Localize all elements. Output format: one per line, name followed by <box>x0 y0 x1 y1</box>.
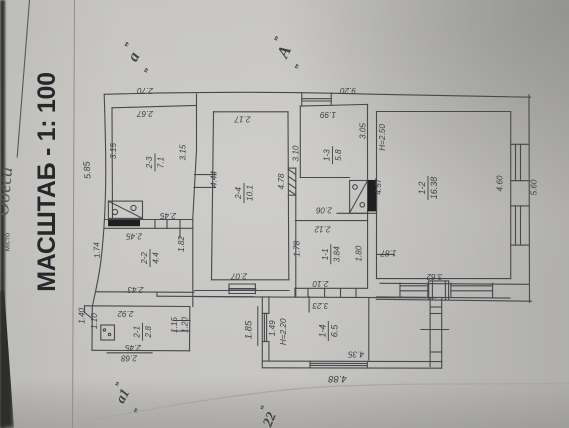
dark photo edge left <box>0 0 5 428</box>
svg-text:2-4: 2-4 <box>234 187 243 200</box>
dimension line below annex <box>107 352 152 354</box>
wall: top outer <box>104 92 530 97</box>
svg-text:1.80: 1.80 <box>354 245 363 261</box>
svg-text:1.99: 1.99 <box>320 110 336 119</box>
svg-text:1-1: 1-1 <box>321 248 330 260</box>
threshold below 2-4 <box>228 284 230 294</box>
room label 1-3/5.8 <box>323 146 344 164</box>
svg-text:2.67: 2.67 <box>137 109 154 118</box>
room label 1-4/6.5 <box>317 321 339 341</box>
svg-text:„: „ <box>267 32 280 42</box>
porch divider wall <box>368 298 370 360</box>
wall: inner left of room 2-3 <box>111 108 114 220</box>
flue: solid black wedge <box>109 220 140 226</box>
svg-text:4.88: 4.88 <box>328 373 347 384</box>
bottom wall of 1-2 windows <box>399 283 401 297</box>
svg-text:1-2: 1-2 <box>417 181 427 194</box>
svg-text:1.20: 1.20 <box>181 317 190 333</box>
svg-text:5.8: 5.8 <box>334 149 343 161</box>
svg-text:2.70: 2.70 <box>137 86 154 95</box>
svg-text:1.82: 1.82 <box>177 236 186 252</box>
dimension extension line for 1.85 <box>257 306 259 346</box>
svg-text:4.78: 4.78 <box>277 173 286 189</box>
annex room 2-1 top wall <box>85 305 191 308</box>
svg-text:а1: а1 <box>114 387 134 406</box>
annex room 2-1 left wall <box>91 306 93 350</box>
svg-text:2.10: 2.10 <box>312 279 329 288</box>
svg-text:4.57: 4.57 <box>374 178 383 194</box>
small box with dots in 2-1 <box>101 325 115 340</box>
svg-text:„: „ <box>254 402 266 411</box>
dimension drop tick for 3.23 <box>308 297 310 312</box>
svg-text:4.44: 4.44 <box>210 171 219 187</box>
svg-text:2.43: 2.43 <box>127 285 144 294</box>
bottom band of 1-1 with ticks <box>294 288 296 296</box>
wall: room 2-2 bottom inner <box>96 291 194 294</box>
svg-text:2.17: 2.17 <box>234 115 251 124</box>
margin rule line <box>73 0 75 428</box>
svg-text:4.60: 4.60 <box>496 175 505 191</box>
svg-text:2-1: 2-1 <box>133 326 142 339</box>
svg-text:4.4: 4.4 <box>152 252 161 264</box>
wall: left block right (between blocks) <box>193 94 197 307</box>
svg-text:9.20: 9.20 <box>340 86 356 95</box>
stove in room 2-3: box with diagonal and circles <box>108 201 142 218</box>
city name rule line <box>17 0 29 157</box>
wall: room 2-2 bottom outer <box>157 295 263 298</box>
svg-text:Одеса: Одеса <box>0 166 17 217</box>
svg-text:5.60: 5.60 <box>529 179 538 195</box>
door jamb ticks in mid wall <box>195 174 217 176</box>
wall: corridor line below 2-2 <box>195 290 290 292</box>
svg-text:3.23: 3.23 <box>312 301 328 310</box>
wall: left outer <box>92 94 105 306</box>
svg-text:4.35: 4.35 <box>348 349 364 358</box>
svg-text:2.68: 2.68 <box>121 354 138 363</box>
svg-text:10.1: 10.1 <box>246 185 255 201</box>
svg-text:H=2.50: H=2.50 <box>378 124 387 151</box>
svg-text:H=2.20: H=2.20 <box>279 318 288 345</box>
room label 2-2/4.4 <box>140 249 161 267</box>
svg-text:1.15: 1.15 <box>170 317 179 333</box>
svg-text:3.62: 3.62 <box>426 272 442 281</box>
porch 1-4 left wall with window <box>261 297 263 367</box>
svg-text:1.85: 1.85 <box>244 320 255 339</box>
wall: second line of mid wall band <box>212 112 214 280</box>
svg-text:„: „ <box>128 404 140 414</box>
room 1-2 walls <box>376 112 378 279</box>
svg-text:1.40: 1.40 <box>78 307 87 323</box>
windows in right wall of 1-2 <box>511 143 529 145</box>
svg-text:3.84: 3.84 <box>332 246 341 262</box>
room label 2-1/2.8 <box>133 323 154 341</box>
room 2-4 walls <box>214 111 289 113</box>
svg-text:2.06: 2.06 <box>316 206 333 215</box>
wall: right outer <box>528 95 531 302</box>
svg-text:2.45: 2.45 <box>126 232 143 241</box>
svg-text:16.38: 16.38 <box>429 177 439 200</box>
annex chamfer <box>84 306 86 313</box>
wall: inner top of left block <box>112 106 196 108</box>
annex room 2-1 right wall <box>189 307 191 351</box>
svg-text:2.07: 2.07 <box>231 272 248 281</box>
svg-text:1.87: 1.87 <box>380 249 396 258</box>
svg-text:2.12: 2.12 <box>314 225 331 234</box>
handwriting mark "a" top <box>109 32 301 428</box>
svg-text:2-3: 2-3 <box>145 156 154 169</box>
svg-text:1-3: 1-3 <box>323 149 332 161</box>
svg-text:а: а <box>125 49 144 64</box>
svg-text:3.05: 3.05 <box>359 123 368 139</box>
annex room 2-1 bottom wall <box>92 349 190 352</box>
svg-text:5.85: 5.85 <box>81 160 92 179</box>
chimney hatch band right of 2-4 <box>295 168 297 297</box>
svg-text:2.45: 2.45 <box>160 211 177 220</box>
svg-text:7.1: 7.1 <box>157 157 166 168</box>
wall between 2-3 and 2-2 with closet ladder <box>105 219 193 221</box>
svg-text:3.15: 3.15 <box>109 143 118 159</box>
wall: bottom band lines of room 1-2 <box>380 283 529 284</box>
svg-text:місто: місто <box>3 233 12 251</box>
room label 2-4/10.1 <box>234 183 255 203</box>
bottom darker band under page fold <box>0 378 569 428</box>
svg-text:2-2: 2-2 <box>140 252 149 265</box>
svg-text:2.92: 2.92 <box>117 309 134 318</box>
svg-text:„: „ <box>109 378 121 388</box>
porch bottom wall with window <box>262 360 441 363</box>
porch dimension tick 4.35 <box>421 329 449 331</box>
dimension ticks right side of 2-1 <box>174 320 190 322</box>
svg-text:1.49: 1.49 <box>268 320 277 336</box>
svg-text:„: „ <box>288 60 301 70</box>
svg-text:3.15: 3.15 <box>179 144 188 160</box>
wall: bottom outer of room 1-2 <box>376 299 531 301</box>
stove between 1-3 and 1-1 <box>350 181 368 214</box>
room 1-1 walls <box>295 220 367 222</box>
svg-text:2.8: 2.8 <box>144 326 153 339</box>
svg-text:1.78: 1.78 <box>293 240 302 256</box>
page fold curve <box>55 384 569 428</box>
window above room 1-3 <box>301 93 303 106</box>
porch right wall <box>429 298 431 367</box>
pier in bottom wall <box>428 281 430 300</box>
svg-text:„: „ <box>137 63 150 73</box>
1.87 tick in room 1-2 <box>377 253 394 255</box>
svg-text:22: 22 <box>260 410 280 428</box>
room label 2-3/7.1 <box>145 154 166 172</box>
room label 1-1/3.84 <box>321 244 342 264</box>
svg-text:1-4: 1-4 <box>317 324 327 337</box>
svg-text:„: „ <box>118 37 131 47</box>
svg-text:А: А <box>273 43 295 62</box>
svg-text:2.45: 2.45 <box>125 343 142 352</box>
svg-text:1.74: 1.74 <box>92 241 102 258</box>
room 1-3 walls <box>299 106 301 178</box>
svg-text:1.10: 1.10 <box>90 313 99 329</box>
wall: main bottom inner (porch top) <box>195 297 437 298</box>
svg-text:3.10: 3.10 <box>291 145 300 161</box>
room label 1-2/16.38 <box>417 176 439 200</box>
svg-text:6.5: 6.5 <box>329 324 339 338</box>
svg-text:МАСШТАБ - 1: 100: МАСШТАБ - 1: 100 <box>33 72 61 291</box>
